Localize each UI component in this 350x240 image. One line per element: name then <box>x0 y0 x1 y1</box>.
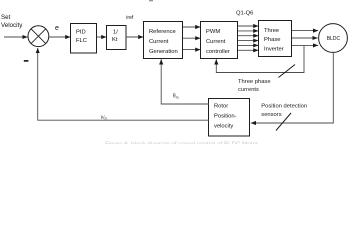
svg-text:FLC: FLC <box>76 38 87 44</box>
node: Set Velocity input label <box>1 14 23 29</box>
wire: inverter to BLDC phase A <box>292 30 318 32</box>
wire: PWM to inverter gate 6 <box>238 49 258 51</box>
svg-text:iref: iref <box>126 15 134 21</box>
svg-text:Inverter: Inverter <box>264 46 284 52</box>
wire: PWM to inverter gate 4 <box>238 40 258 42</box>
bus slash on three phase current feedback <box>279 65 296 78</box>
svg-text:Q1-Q6: Q1-Q6 <box>236 11 253 17</box>
svg-text:BLDC: BLDC <box>327 36 341 42</box>
wire: 1/Kt to Reference Current Generation <box>126 36 143 38</box>
block: Three Phase Inverter <box>259 21 292 57</box>
wire: inverter to BLDC phase B <box>292 37 318 39</box>
wire: PWM to inverter gate 2 <box>238 30 258 32</box>
wire: PWM to inverter gate 3 <box>238 35 258 37</box>
wire: PID to 1/Kt <box>97 36 106 38</box>
wire: reference to PWM line 3 <box>183 49 200 51</box>
svg-text:Position-: Position- <box>214 113 237 119</box>
wire: position sensor feedback from BLDC to rotor block <box>251 52 333 123</box>
wire: three phase current feedback tap <box>216 45 304 72</box>
svg-text:Set: Set <box>1 14 11 21</box>
block: PID FLC controller <box>71 24 97 54</box>
svg-text:PWM: PWM <box>206 29 220 35</box>
svg-text:Current: Current <box>149 39 169 45</box>
wire: summing junction to PID <box>49 36 71 38</box>
svg-text:Wm: Wm <box>100 115 107 121</box>
svg-text:Generation: Generation <box>149 49 178 55</box>
wire: PWM to inverter gate 5 <box>238 44 258 46</box>
svg-text:Kt: Kt <box>112 37 118 43</box>
svg-text:Phase: Phase <box>264 37 280 43</box>
wire: set velocity input arrow <box>4 36 28 38</box>
wire: rotor angle theta_m to Reference block <box>161 59 209 104</box>
svg-text:Figure 6. block diagram of spe: Figure 6. block diagram of speed control… <box>105 141 258 144</box>
block: Reference Current Generation <box>144 22 183 59</box>
node label: Three phase currents <box>238 79 271 93</box>
svg-text:sensors: sensors <box>261 112 281 118</box>
svg-text:Position detection: Position detection <box>261 104 307 110</box>
svg-text:Velocity: Velocity <box>1 22 23 29</box>
bus slash on position sensor feedback <box>276 113 291 131</box>
wire: reference to PWM line 1 <box>183 26 200 28</box>
svg-text:Rotor: Rotor <box>214 103 228 109</box>
summing junction <box>28 26 49 47</box>
svg-text:velocity: velocity <box>214 123 233 129</box>
BLDC motor <box>319 24 348 53</box>
wire: PWM to inverter gate 1 <box>238 25 258 27</box>
svg-text:1/: 1/ <box>113 30 118 36</box>
svg-text:PID: PID <box>76 30 86 36</box>
svg-text:Three: Three <box>264 28 279 34</box>
svg-text:Reference: Reference <box>149 29 176 35</box>
svg-text:currents: currents <box>238 87 259 93</box>
wire: inverter to BLDC phase C <box>292 44 318 46</box>
block: PWM Current controller <box>201 22 238 59</box>
block: Rotor Position-velocity estimator <box>209 99 250 137</box>
block: 1/Kt gain <box>107 26 127 50</box>
node label: Position detection sensors <box>261 104 307 118</box>
top edge artifact <box>149 0 153 1</box>
wire: reference to PWM line 2 <box>183 37 200 39</box>
svg-text:Current: Current <box>206 39 226 45</box>
wire: speed omega_m feedback to summing junction <box>38 48 209 120</box>
minus sign <box>24 60 29 62</box>
svg-text:e: e <box>55 25 59 32</box>
svg-text:controller: controller <box>206 49 230 55</box>
svg-text:Three phase: Three phase <box>238 79 271 85</box>
